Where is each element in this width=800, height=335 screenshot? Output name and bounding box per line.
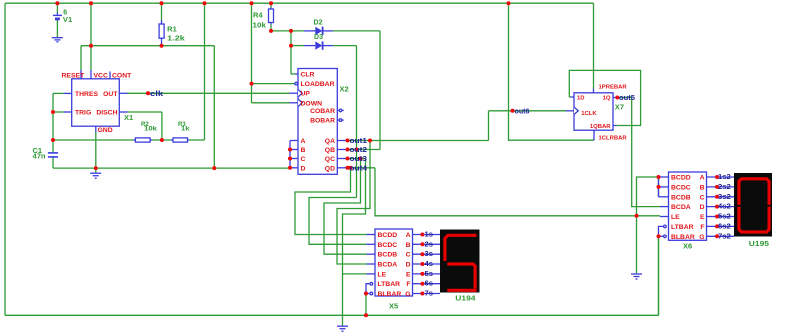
svg-text:QB: QB: [325, 147, 335, 154]
svg-text:X6: X6: [683, 244, 692, 251]
svg-text:U195: U195: [749, 241, 769, 248]
svg-text:VCC: VCC: [94, 73, 108, 80]
svg-text:BCDB: BCDB: [378, 252, 398, 259]
svg-text:CLR: CLR: [301, 72, 315, 79]
svg-text:4s2: 4s2: [718, 204, 731, 211]
svg-text:1PREBAR: 1PREBAR: [599, 85, 628, 91]
svg-text:6s: 6s: [425, 281, 434, 288]
svg-text:1k: 1k: [181, 126, 190, 133]
svg-text:C: C: [301, 156, 306, 163]
svg-text:A: A: [406, 232, 411, 239]
svg-text:THRES: THRES: [75, 91, 99, 98]
svg-text:D: D: [406, 262, 411, 269]
svg-text:D: D: [700, 204, 705, 211]
svg-text:QC: QC: [325, 156, 335, 163]
svg-text:2s2: 2s2: [718, 184, 731, 191]
svg-text:out2: out2: [350, 147, 368, 154]
svg-text:E: E: [700, 214, 705, 221]
svg-text:GND: GND: [98, 127, 113, 134]
svg-text:C: C: [700, 194, 705, 201]
svg-text:4s: 4s: [425, 261, 434, 268]
svg-text:1s: 1s: [425, 232, 434, 239]
svg-text:R1: R1: [167, 27, 177, 34]
svg-text:X5: X5: [389, 303, 398, 310]
svg-text:2s: 2s: [425, 241, 434, 248]
svg-text:BCDA: BCDA: [671, 204, 691, 211]
svg-text:B: B: [700, 184, 705, 191]
svg-text:out3: out3: [350, 156, 368, 163]
svg-text:LTBAR: LTBAR: [671, 224, 694, 231]
svg-text:A: A: [700, 175, 705, 182]
svg-text:QA: QA: [325, 138, 335, 145]
svg-text:A: A: [301, 138, 306, 145]
svg-text:out6: out6: [515, 108, 530, 115]
svg-text:D2: D2: [314, 20, 323, 27]
svg-text:1CLRBAR: 1CLRBAR: [599, 135, 628, 141]
svg-text:10k: 10k: [253, 23, 267, 30]
svg-text:F: F: [700, 224, 704, 231]
svg-text:out4: out4: [350, 165, 368, 172]
svg-text:CONT: CONT: [112, 73, 132, 80]
svg-text:D: D: [301, 165, 306, 172]
svg-text:G: G: [699, 234, 704, 241]
svg-text:BCDD: BCDD: [378, 232, 398, 239]
svg-text:BCDD: BCDD: [671, 175, 691, 182]
svg-text:5s: 5s: [425, 271, 434, 278]
svg-text:R4: R4: [253, 13, 263, 20]
svg-text:1QBAR: 1QBAR: [590, 124, 611, 130]
svg-text:V1: V1: [63, 17, 72, 24]
svg-text:QD: QD: [325, 165, 335, 172]
svg-text:1Q: 1Q: [603, 96, 611, 102]
svg-text:G: G: [405, 291, 410, 298]
svg-text:C: C: [406, 252, 411, 259]
svg-text:1D: 1D: [577, 96, 585, 102]
svg-text:B: B: [406, 242, 411, 249]
svg-text:LTBAR: LTBAR: [378, 281, 401, 288]
svg-text:X2: X2: [340, 87, 349, 94]
svg-text:LOADBAR: LOADBAR: [301, 81, 335, 88]
svg-text:LE: LE: [671, 214, 680, 221]
svg-text:LE: LE: [378, 271, 387, 278]
svg-text:out1: out1: [350, 138, 368, 145]
svg-text:BOBAR: BOBAR: [310, 118, 335, 125]
svg-text:5s2: 5s2: [718, 214, 731, 221]
svg-text:TRIG: TRIG: [75, 110, 91, 117]
svg-text:OUT: OUT: [103, 91, 118, 98]
svg-text:U194: U194: [455, 296, 475, 303]
svg-text:UP: UP: [301, 91, 311, 98]
svg-text:out5: out5: [619, 95, 635, 102]
svg-text:BCDA: BCDA: [378, 262, 398, 269]
svg-text:3s2: 3s2: [718, 194, 731, 201]
svg-text:B: B: [301, 147, 306, 154]
svg-text:BCDC: BCDC: [378, 242, 398, 249]
svg-text:47n: 47n: [33, 154, 46, 161]
svg-text:E: E: [406, 271, 411, 278]
svg-text:COBAR: COBAR: [310, 108, 335, 115]
svg-text:DOWN: DOWN: [301, 100, 323, 107]
svg-text:1CLK: 1CLK: [581, 111, 597, 117]
svg-text:3s: 3s: [425, 251, 434, 258]
svg-text:clk: clk: [150, 91, 163, 98]
svg-text:X7: X7: [615, 105, 624, 112]
svg-text:10k: 10k: [144, 126, 157, 133]
svg-text:BCDC: BCDC: [671, 184, 691, 191]
svg-text:F: F: [406, 281, 410, 288]
svg-text:RESET: RESET: [62, 73, 86, 80]
svg-text:7s2: 7s2: [718, 233, 731, 240]
svg-text:1s2: 1s2: [718, 174, 731, 181]
svg-text:D3: D3: [314, 34, 323, 41]
svg-text:6s2: 6s2: [718, 223, 731, 230]
svg-text:BLBAR: BLBAR: [378, 291, 402, 298]
svg-text:BLBAR: BLBAR: [671, 234, 695, 241]
svg-text:7s: 7s: [425, 291, 434, 298]
svg-text:1.2k: 1.2k: [167, 36, 185, 43]
svg-text:X1: X1: [124, 115, 133, 122]
svg-text:DISCH: DISCH: [96, 110, 117, 117]
svg-text:BCDB: BCDB: [671, 194, 691, 201]
svg-text:6: 6: [63, 10, 67, 17]
